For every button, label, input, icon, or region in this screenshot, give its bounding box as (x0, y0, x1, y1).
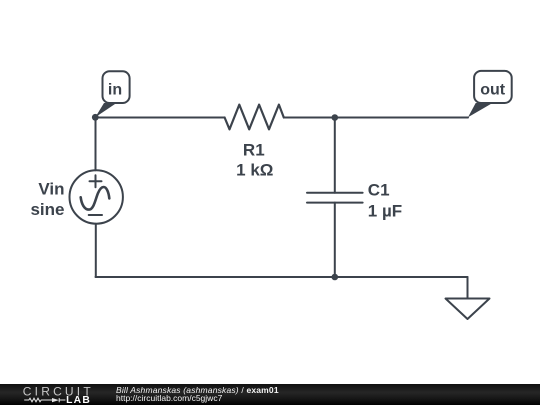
svg-text:in: in (108, 82, 122, 99)
resistor R1 (225, 105, 284, 130)
wire source bottom lead (95, 224, 97, 277)
svg-text:Vin: Vin (38, 180, 64, 199)
node label in: box (103, 71, 130, 103)
footer bar (0, 384, 540, 405)
plus sign (90, 180, 102, 182)
wire source top lead (95, 118, 97, 171)
wire bottom rail (96, 276, 468, 278)
credit line 1 (116, 386, 279, 395)
capacitor C1 plates (307, 192, 363, 194)
svg-text:LAB: LAB (66, 395, 91, 405)
node dot at bottom junction (332, 274, 339, 281)
svg-text:sine: sine (30, 200, 64, 219)
wire capacitor top lead (334, 118, 336, 193)
CircuitLab logo (0, 384, 110, 405)
node label out: box (474, 71, 512, 103)
svg-text:out: out (480, 82, 506, 99)
svg-text:1 µF: 1 µF (368, 202, 402, 221)
node label in: pointer (95, 103, 116, 117)
svg-text:R1: R1 (243, 141, 265, 160)
wire resistor to out (284, 117, 468, 119)
node label out: pointer (468, 103, 493, 117)
sine symbol (81, 187, 110, 210)
svg-text:C1: C1 (368, 180, 390, 199)
wire ground drop (467, 277, 469, 299)
wire top left: in node to resistor (96, 117, 225, 119)
minus sign (89, 214, 102, 216)
credit line 2 (116, 394, 222, 403)
ground (446, 299, 490, 320)
svg-text:1 kΩ: 1 kΩ (236, 160, 273, 179)
voltage source V1 circle (70, 170, 123, 223)
node dot at R1/C1 junction (332, 114, 339, 121)
node dot at in (92, 114, 99, 121)
wire capacitor bottom lead (334, 203, 336, 277)
